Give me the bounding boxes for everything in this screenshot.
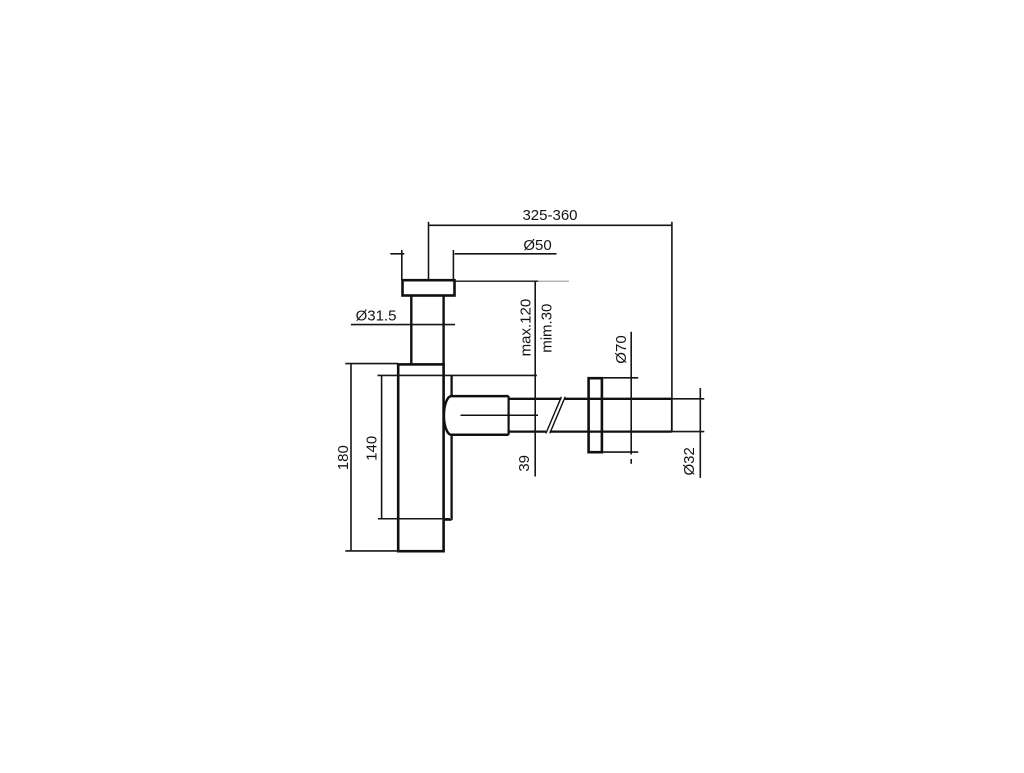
svg-text:180: 180 [335,445,352,470]
svg-text:39: 39 [516,455,533,472]
svg-text:Ø32: Ø32 [681,447,698,475]
svg-text:Ø50: Ø50 [523,237,551,254]
svg-text:325-360: 325-360 [522,207,577,224]
svg-text:max.120: max.120 [518,299,535,357]
svg-text:Ø31.5: Ø31.5 [356,307,397,324]
svg-text:mim.30: mim.30 [538,304,555,353]
svg-text:Ø70: Ø70 [613,335,630,363]
svg-text:140: 140 [364,436,381,461]
